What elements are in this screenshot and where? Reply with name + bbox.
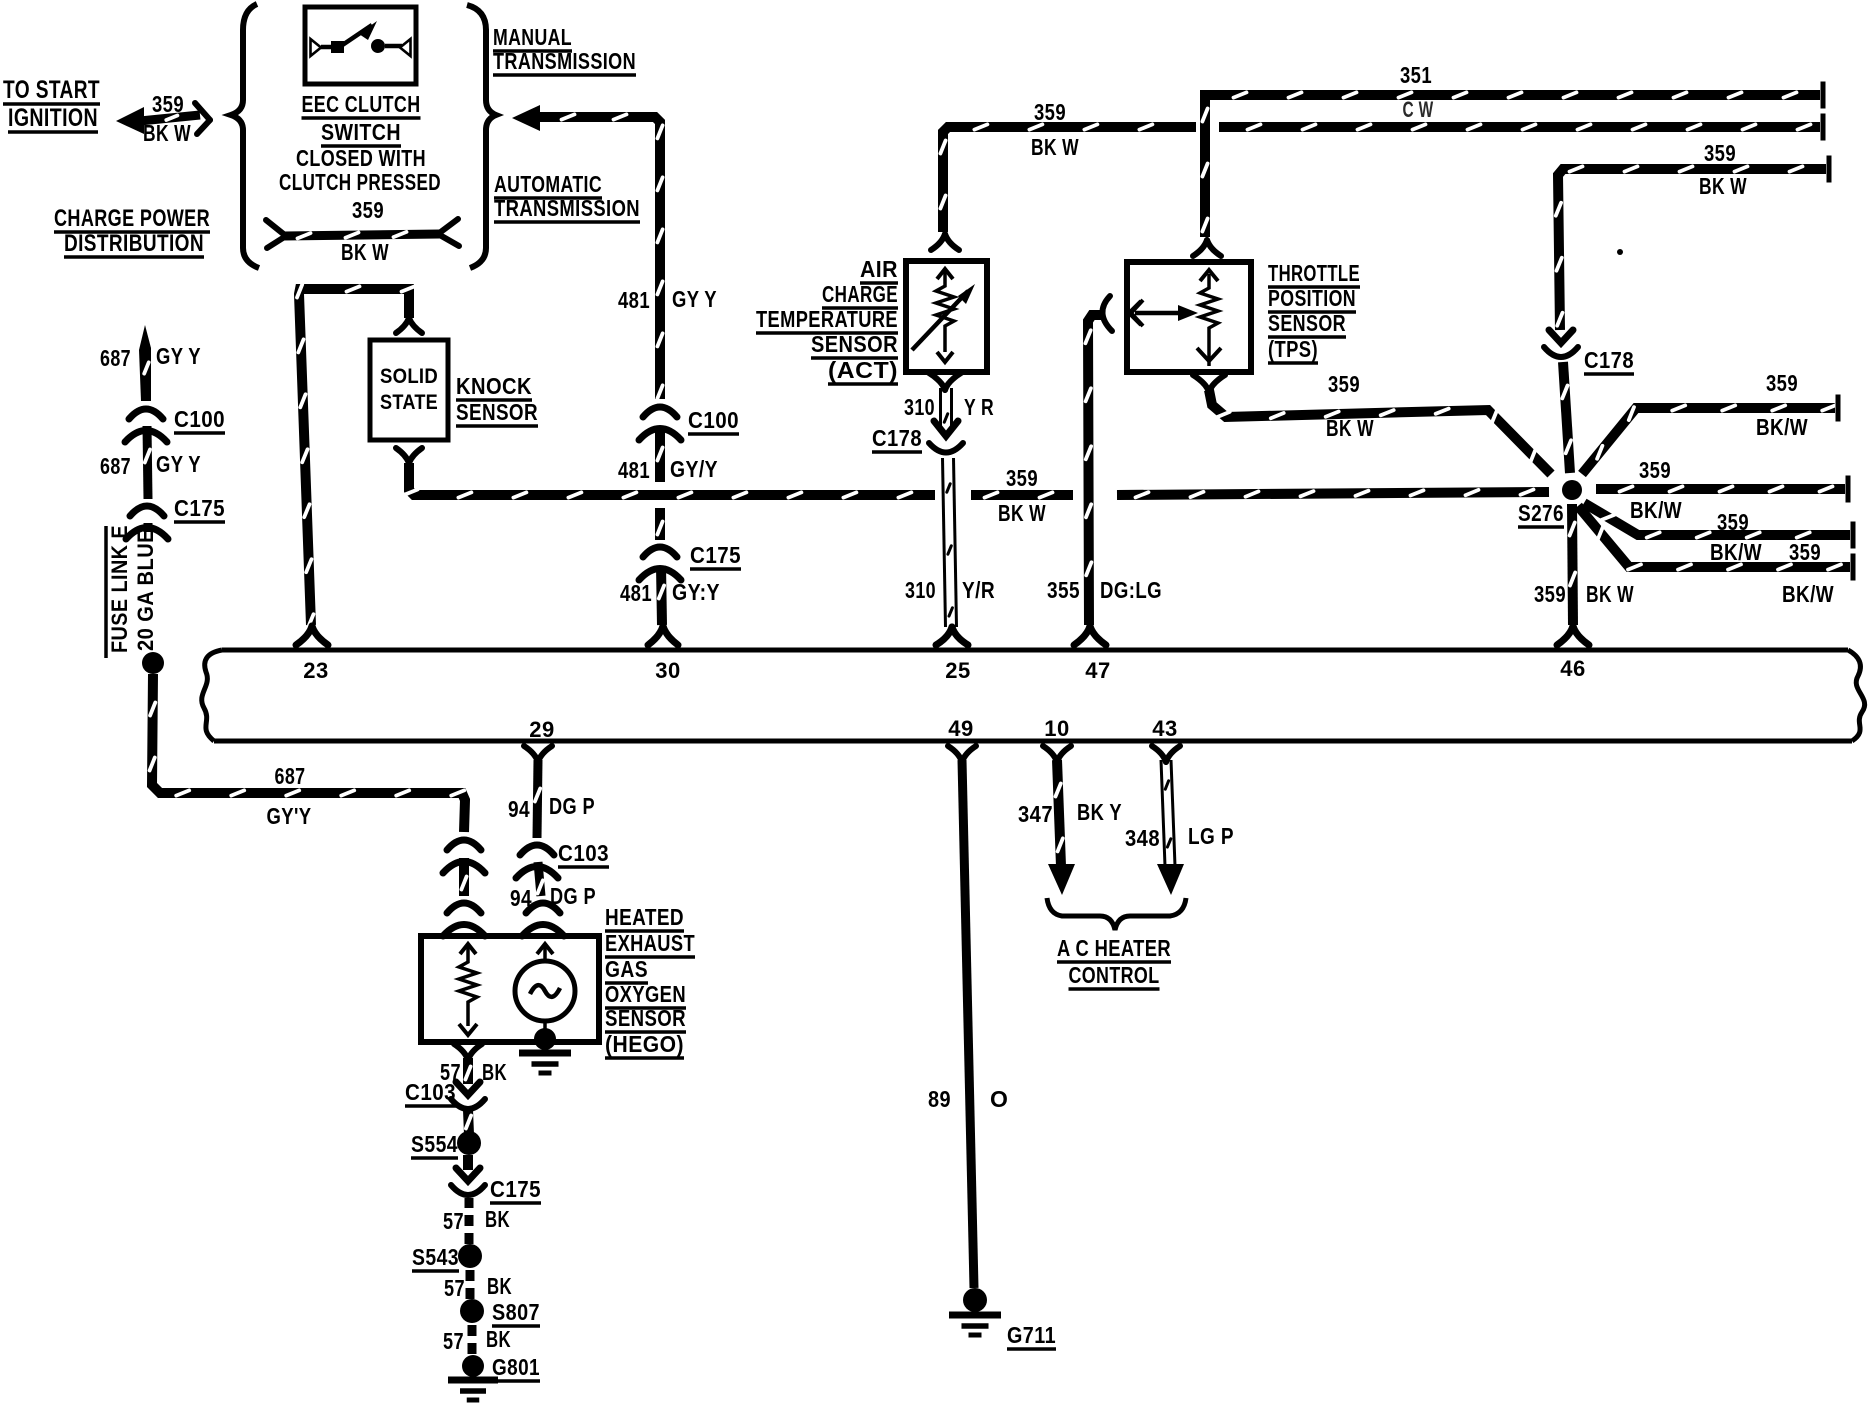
label THROTTLE POSITION SENSOR (TPS): [1268, 260, 1360, 363]
HEGO AC source symbol: [515, 944, 575, 1038]
svg-text:BK Y: BK Y: [1077, 799, 1122, 825]
wire 687 GY/Y (top pointed stub): [139, 325, 151, 401]
wire 359 BK/W (second top wire, left part): [940, 124, 1196, 232]
svg-text:C W: C W: [1403, 97, 1434, 122]
label TO START IGNITION: [3, 76, 100, 132]
TPS top connector (fishtail): [1193, 240, 1221, 256]
svg-text:C175: C175: [490, 1176, 541, 1202]
svg-text:GY'Y: GY'Y: [267, 803, 312, 829]
label DG P (lower): [550, 883, 596, 909]
svg-text:57: 57: [443, 1328, 464, 1354]
svg-text:C103: C103: [558, 840, 609, 866]
wire 310 Y/R (C178 to pin 25): [943, 458, 957, 627]
svg-text:O: O: [990, 1086, 1008, 1112]
label 351: [1400, 62, 1432, 88]
HEGO bottom connector (cup): [454, 1044, 482, 1060]
label BK (1): [482, 1059, 507, 1085]
splice S276 dot: [1562, 480, 1582, 500]
label CLOSED WITH CLUTCH PRESSED: [279, 145, 441, 195]
arrow into right brace (automatic transmission feed): [512, 105, 540, 131]
svg-text:43: 43: [1152, 716, 1177, 741]
label 359 (bus): [1006, 465, 1038, 491]
pin label 10: [1044, 716, 1069, 741]
label 310 (upper): [904, 394, 935, 420]
label C103 (57 wire): [405, 1079, 456, 1106]
label 481 (lower): [620, 580, 652, 606]
connector C100 (481 wire): [639, 407, 681, 440]
label 57 (1): [440, 1059, 461, 1085]
ACT sensor box: [906, 261, 987, 372]
wire 481 GY/Y (C100 to bus crossing): [657, 426, 662, 482]
svg-text:SWITCH: SWITCH: [321, 119, 401, 145]
svg-text:CLOSED WITH: CLOSED WITH: [296, 145, 426, 171]
wire 359 BK/W (below switch, fishtail ends): [266, 219, 459, 248]
right brace (transmission bracket): [467, 5, 496, 268]
pin label 47: [1085, 658, 1110, 683]
wire 89 O (pin 49 to G711): [962, 760, 974, 1288]
label GY:Y (lower): [672, 579, 720, 605]
svg-text:687: 687: [100, 453, 131, 479]
svg-text:Y R: Y R: [964, 394, 994, 420]
label BK/W (right): [1630, 497, 1682, 523]
label G801: [492, 1354, 540, 1381]
wire 359 BK/W (TPS to S276): [1209, 390, 1551, 474]
label 481 (upper): [618, 287, 650, 313]
connector C100 (687 wire): [125, 409, 167, 442]
svg-text:S807: S807: [492, 1299, 540, 1325]
svg-text:C100: C100: [688, 407, 739, 433]
wire 94 DG/P (pin 29 to C103): [535, 760, 540, 838]
label S543: [412, 1244, 459, 1271]
label 687 (upper): [100, 345, 131, 371]
svg-text:SENSOR: SENSOR: [456, 399, 538, 425]
label DG P (upper): [549, 793, 595, 819]
svg-text:359: 359: [1639, 457, 1671, 483]
wire 359 BK/W to start ignition (arrow left): [116, 103, 210, 134]
svg-text:310: 310: [904, 394, 935, 420]
svg-text:GY:Y: GY:Y: [672, 579, 720, 605]
svg-text:C178: C178: [1584, 347, 1634, 373]
label HEATED EXHAUST GAS OXYGEN SENSOR (HEGO): [605, 904, 695, 1058]
wire 347 BK/Y (pin 10, arrow down): [1048, 760, 1075, 895]
label BK W (TPS wire): [1326, 415, 1374, 441]
svg-text:481: 481: [618, 457, 650, 483]
connector C175 (687 wire): [126, 506, 168, 539]
label 359 (third top): [1704, 140, 1736, 166]
svg-text:359: 359: [352, 197, 384, 223]
pin label 46: [1560, 656, 1585, 681]
label Y/R (lower): [962, 577, 995, 603]
ground G711 dot: [963, 1288, 987, 1312]
pin 43 connector (cup): [1152, 746, 1180, 762]
label 359 (second top): [1034, 99, 1066, 125]
label C178 (ACT): [872, 425, 922, 452]
svg-text:IGNITION: IGNITION: [8, 104, 98, 132]
label S276: [1518, 500, 1564, 527]
svg-text:TEMPERATURE: TEMPERATURE: [756, 306, 898, 332]
svg-text:LG P: LG P: [1188, 823, 1234, 849]
connector C103 (57 wire): [451, 1082, 485, 1109]
svg-text:S554: S554: [411, 1131, 458, 1157]
pin label 29: [529, 717, 554, 742]
svg-text:46: 46: [1560, 656, 1585, 681]
wire knock sensor to pin 23: [297, 285, 415, 628]
pin label 30: [655, 658, 680, 683]
svg-text:57: 57: [443, 1208, 464, 1234]
svg-text:BK/W: BK/W: [1782, 581, 1834, 607]
wire 359 BK/W bus (knock sensor to S276), segment 1: [405, 463, 935, 498]
svg-text:TRANSMISSION: TRANSMISSION: [493, 48, 636, 74]
label 89: [928, 1086, 951, 1112]
svg-text:29: 29: [529, 717, 554, 742]
label 359 (right): [1639, 457, 1671, 483]
svg-text:CHARGE: CHARGE: [822, 281, 898, 307]
label S554: [411, 1131, 458, 1158]
pin label 49: [948, 716, 973, 741]
svg-text:BK W: BK W: [341, 239, 389, 265]
svg-text:C178: C178: [872, 425, 922, 451]
label AIR CHARGE TEMPERATURE SENSOR (ACT): [756, 256, 898, 384]
label BK/W (upper right): [1756, 414, 1808, 440]
label GY'Y (horizontal): [267, 803, 312, 829]
svg-text:AIR: AIR: [860, 256, 898, 282]
arrow on 310 wire (C178 male): [934, 421, 958, 436]
label GY/Y (middle): [670, 456, 718, 482]
svg-text:89: 89: [928, 1086, 951, 1112]
pin label 43: [1152, 716, 1177, 741]
label 310 (lower): [905, 577, 936, 603]
label C175 (481 wire): [690, 542, 741, 569]
svg-text:C175: C175: [690, 542, 741, 568]
wire 355 DG/LG (TPS to pin 47): [1085, 315, 1104, 625]
wire 359 BK/W (S276 to pin 46): [1570, 504, 1576, 625]
svg-text:359: 359: [152, 91, 184, 117]
wire 57 BK dashed (S807 to G801): [468, 1325, 477, 1354]
knock sensor bottom connector (cup): [396, 448, 422, 463]
wire 687 GY/Y (dot down and right): [150, 674, 465, 832]
ground symbol (HEGO): [519, 1053, 571, 1073]
label 94 (lower): [510, 885, 532, 911]
splice S807 dot: [460, 1299, 484, 1323]
svg-text:359: 359: [1534, 581, 1566, 607]
svg-text:CLUTCH PRESSED: CLUTCH PRESSED: [279, 169, 441, 195]
svg-text:SENSOR: SENSOR: [811, 331, 898, 357]
label 359 (lower right 2): [1789, 539, 1821, 565]
svg-text:SOLID: SOLID: [380, 365, 438, 388]
svg-text:481: 481: [618, 287, 650, 313]
label 359 (upper right): [1766, 370, 1798, 396]
label C100: [688, 407, 739, 434]
label C175 (57 wire): [490, 1176, 541, 1203]
svg-text:BK: BK: [485, 1206, 510, 1232]
svg-text:BK: BK: [482, 1059, 507, 1085]
label GY Y (lower left): [156, 451, 201, 477]
svg-text:348: 348: [1125, 825, 1160, 851]
wire fuse link E (C175 stub): [144, 523, 153, 532]
switch box (EEC clutch switch): [305, 7, 416, 84]
svg-text:687: 687: [275, 763, 306, 789]
label 94 (upper): [508, 796, 530, 822]
switch symbol (EEC clutch switch): [311, 21, 411, 56]
label BK (3): [487, 1273, 512, 1299]
wire 57 BK (HEGO to C103): [465, 1058, 470, 1084]
label BK W (third top): [1699, 173, 1747, 199]
svg-text:57: 57: [444, 1275, 465, 1301]
label MANUAL TRANSMISSION: [493, 24, 636, 75]
svg-text:OXYGEN: OXYGEN: [605, 981, 686, 1007]
ACT top connector (fishtail): [931, 234, 959, 250]
ground symbol G801: [448, 1380, 498, 1400]
svg-text:355: 355: [1047, 577, 1080, 603]
svg-text:687: 687: [100, 345, 131, 371]
svg-text:359: 359: [1717, 509, 1749, 535]
svg-text:CHARGE POWER: CHARGE POWER: [54, 205, 210, 232]
label 359 (pin 46 wire): [1534, 581, 1566, 607]
svg-text:BK: BK: [486, 1326, 511, 1352]
svg-text:GY/Y: GY/Y: [670, 456, 718, 482]
label BK W (pin 46 wire): [1586, 581, 1634, 607]
label BK Y: [1077, 799, 1122, 825]
label A C HEATER: [1057, 935, 1171, 962]
svg-text:25: 25: [945, 658, 970, 683]
label GY Y (upper): [672, 286, 717, 312]
svg-text:DG:LG: DG:LG: [1100, 577, 1162, 603]
connector pair (687 drop, upper): [443, 840, 485, 873]
pin 25 connector (fishtail): [936, 627, 968, 645]
svg-text:20 GA BLUE: 20 GA BLUE: [133, 529, 158, 651]
label BK (4): [486, 1326, 511, 1352]
svg-text:SENSOR: SENSOR: [605, 1005, 686, 1031]
HEGO sensor box: [421, 936, 599, 1042]
svg-text:TO START: TO START: [3, 76, 100, 104]
svg-text:(ACT): (ACT): [828, 357, 898, 383]
label BK W (bus): [998, 500, 1046, 526]
label O: [990, 1086, 1008, 1112]
svg-text:STATE: STATE: [380, 391, 438, 414]
svg-text:23: 23: [303, 658, 328, 683]
label 359 (TPS wire): [1328, 371, 1360, 397]
label BK W (to start): [143, 120, 191, 146]
label G711: [1007, 1322, 1056, 1349]
label 57 (2): [443, 1208, 464, 1234]
pin 10 connector (cup): [1043, 746, 1071, 762]
label 687 (horizontal): [275, 763, 306, 789]
label 687 (lower): [100, 453, 131, 479]
svg-text:310: 310: [905, 577, 936, 603]
label 347: [1018, 801, 1053, 827]
svg-text:BK W: BK W: [1031, 134, 1079, 160]
pin 23 connector (fishtail): [296, 626, 328, 645]
label AUTOMATIC TRANSMISSION: [494, 171, 640, 222]
connector C178 (on 359 wire to S276): [1544, 330, 1578, 357]
TPS sensor box: [1127, 262, 1251, 372]
label C W (faint): [1403, 97, 1434, 122]
svg-text:MANUAL: MANUAL: [493, 24, 572, 50]
connector C178 (310 wire female cup): [929, 443, 963, 453]
wire 94 DG/P (C103 to HEGO): [538, 862, 543, 896]
svg-text:BK W: BK W: [143, 120, 191, 146]
svg-text:C100: C100: [174, 406, 225, 432]
label FUSE LINK E (rotated): [106, 525, 132, 658]
svg-text:G711: G711: [1007, 1322, 1056, 1348]
svg-text:30: 30: [655, 658, 680, 683]
connector C103 (94 wire): [516, 845, 558, 878]
label DG:LG: [1100, 577, 1162, 603]
svg-text:EXHAUST: EXHAUST: [605, 930, 695, 956]
svg-text:DISTRIBUTION: DISTRIBUTION: [64, 230, 204, 257]
wire 359 BK/W (C178 to S276): [1562, 362, 1571, 473]
label C175 (left): [174, 495, 225, 522]
label C103 (94 wire): [558, 840, 609, 867]
svg-text:359: 359: [1034, 99, 1066, 125]
wire 359 BK/W (second top wire, right part): [1219, 114, 1823, 141]
knock sensor terminal (top fishtail): [396, 318, 422, 333]
svg-text:351: 351: [1400, 62, 1432, 88]
label 57 (3): [444, 1275, 465, 1301]
wire 359 BK/W (third top wire): [1556, 156, 1829, 331]
svg-text:FUSE LINK E: FUSE LINK E: [107, 525, 132, 653]
label KNOCK SENSOR: [456, 373, 538, 426]
TPS potentiometer symbol: [1129, 270, 1221, 366]
svg-text:47: 47: [1085, 658, 1110, 683]
ground G801 dot: [462, 1355, 484, 1377]
svg-text:GY Y: GY Y: [672, 286, 717, 312]
pin 46 connector (fishtail): [1557, 626, 1589, 645]
HEGO right terminal connector: [522, 903, 564, 936]
label CHARGE POWER DISTRIBUTION: [54, 205, 210, 257]
svg-text:49: 49: [948, 716, 973, 741]
HEGO heater resistor symbol: [459, 944, 477, 1035]
svg-text:POSITION: POSITION: [1268, 285, 1356, 311]
label 359 (to start): [152, 91, 184, 117]
wire 359 BK/W (S276 lower right 2): [1578, 506, 1853, 581]
label 57 (4): [443, 1328, 464, 1354]
wire 348 LG/P (pin 43, arrow down): [1157, 760, 1184, 895]
TPS left terminal connector (cup opening right): [1102, 296, 1143, 331]
label 355: [1047, 577, 1080, 603]
svg-text:BK W: BK W: [1699, 173, 1747, 199]
EEC module connector bar: [202, 650, 1865, 741]
svg-text:C175: C175: [174, 495, 225, 521]
label BK/W (lower right 1): [1710, 539, 1762, 565]
splice S543 dot: [458, 1244, 482, 1268]
ACT bottom connector (cup): [929, 373, 961, 390]
speck (scan artifact dot): [1617, 249, 1623, 255]
svg-text:(TPS): (TPS): [1268, 336, 1318, 362]
svg-text:BK/W: BK/W: [1630, 497, 1682, 523]
wire 481 GY/Y (from brace arrow to C100): [538, 114, 663, 399]
solid state box (knock sensor): [370, 340, 448, 440]
svg-text:359: 359: [1328, 371, 1360, 397]
wire 359 BK/W (S276 lower right 1): [1584, 503, 1853, 549]
pin label 23: [303, 658, 328, 683]
ground dot (HEGO internal ground): [534, 1028, 556, 1050]
label 481 (middle): [618, 457, 650, 483]
pin 49 connector (cup): [948, 746, 976, 762]
svg-text:S543: S543: [412, 1244, 459, 1270]
pin label 25: [945, 658, 970, 683]
pin 29 connector (cup): [524, 746, 552, 762]
wire 359 BK/W (S276 upper right): [1582, 395, 1838, 475]
svg-text:THROTTLE: THROTTLE: [1268, 260, 1360, 286]
svg-text:10: 10: [1044, 716, 1069, 741]
label 359 (lower right 1): [1717, 509, 1749, 535]
wire 57 BK dashed (S543 to S807): [466, 1270, 475, 1299]
wire 57 BK (S554 to C175): [463, 1155, 473, 1170]
svg-text:359: 359: [1704, 140, 1736, 166]
svg-text:EEC CLUTCH: EEC CLUTCH: [302, 91, 421, 117]
label BK W (second top): [1031, 134, 1079, 160]
ACT thermistor symbol: [912, 269, 975, 362]
svg-text:AUTOMATIC: AUTOMATIC: [494, 171, 602, 197]
svg-text:SENSOR: SENSOR: [1268, 310, 1346, 336]
svg-text:GAS: GAS: [605, 956, 648, 982]
wire 687 (between connectors): [461, 858, 466, 896]
svg-text:TRANSMISSION: TRANSMISSION: [494, 195, 640, 221]
svg-text:G801: G801: [492, 1354, 540, 1380]
svg-text:CONTROL: CONTROL: [1069, 962, 1160, 988]
svg-text:BK W: BK W: [1586, 581, 1634, 607]
pin 47 connector (fishtail): [1074, 626, 1106, 645]
svg-text:(HEGO): (HEGO): [605, 1031, 684, 1057]
svg-text:BK W: BK W: [998, 500, 1046, 526]
label EEC CLUTCH SWITCH: [302, 91, 421, 146]
svg-text:359: 359: [1766, 370, 1798, 396]
svg-text:KNOCK: KNOCK: [456, 373, 532, 399]
wire 57 BK (C103 to S554): [466, 1110, 471, 1134]
svg-text:BK: BK: [487, 1273, 512, 1299]
label C100 (left): [174, 406, 225, 433]
wire 481 GY/Y (C175 to pin 30): [659, 566, 664, 625]
svg-text:94: 94: [508, 796, 530, 822]
label BK/W (lower right 2): [1782, 581, 1834, 607]
svg-text:C103: C103: [405, 1079, 456, 1105]
svg-text:359: 359: [1789, 539, 1821, 565]
svg-text:GY Y: GY Y: [156, 343, 201, 369]
svg-text:BK W: BK W: [1326, 415, 1374, 441]
wire 359 BK/W bus segment 3: [1117, 490, 1549, 498]
connector pair (687 drop, HEGO terminal): [443, 903, 485, 936]
wire 687 GY/Y (C100 to C175): [145, 426, 150, 499]
label BK W (below switch): [341, 239, 389, 265]
label LG P: [1188, 823, 1234, 849]
label S807: [492, 1299, 540, 1326]
wire 359 BK/W bus segment 2: [971, 492, 1073, 497]
svg-text:BK/W: BK/W: [1756, 414, 1808, 440]
label GY Y (upper left): [156, 343, 201, 369]
connector C175 (57 wire): [451, 1168, 485, 1195]
svg-text:GY Y: GY Y: [156, 451, 201, 477]
label 359 (below switch): [352, 197, 384, 223]
wire 57 BK dashed (C175 to S543): [465, 1198, 474, 1244]
label BK (2): [485, 1206, 510, 1232]
label C178 (right): [1584, 347, 1634, 374]
brace (A/C heater control): [1047, 898, 1186, 930]
TPS bottom connector (cup): [1193, 375, 1225, 392]
svg-text:BK/W: BK/W: [1710, 539, 1762, 565]
splice S554 dot: [457, 1131, 481, 1155]
svg-text:481: 481: [620, 580, 652, 606]
label 20 GA BLUE (rotated): [133, 529, 158, 651]
left brace (transmission bracket): [231, 4, 259, 268]
label Y R (upper): [964, 394, 994, 420]
label 348: [1125, 825, 1160, 851]
wire 351 C/W (top): [1202, 82, 1823, 238]
pin 30 connector (fishtail): [648, 626, 678, 645]
svg-text:A C HEATER: A C HEATER: [1057, 935, 1171, 961]
svg-text:HEATED: HEATED: [605, 904, 684, 930]
wire 359 BK/W (S276 right): [1596, 476, 1848, 503]
